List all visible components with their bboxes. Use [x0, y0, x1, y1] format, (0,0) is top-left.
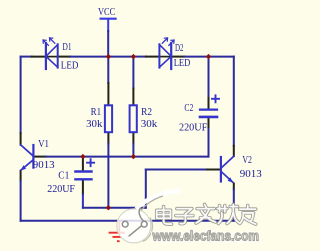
svg-text:D2: D2 — [175, 42, 184, 54]
svg-text:VCC: VCC — [98, 6, 115, 18]
svg-text:www.elecfans.com: www.elecfans.com — [152, 229, 259, 244]
svg-text:LED: LED — [61, 60, 79, 72]
svg-text:30k: 30k — [86, 118, 103, 130]
svg-text:C1: C1 — [58, 170, 69, 182]
svg-text:220UF: 220UF — [47, 183, 75, 195]
svg-text:V2: V2 — [242, 154, 252, 166]
svg-text:30k: 30k — [141, 118, 158, 130]
svg-text:220UF: 220UF — [179, 121, 207, 133]
svg-text:D1: D1 — [63, 41, 72, 53]
svg-text:9013: 9013 — [33, 159, 55, 171]
svg-text:C2: C2 — [184, 102, 193, 114]
svg-text:R1: R1 — [91, 106, 102, 118]
svg-text:9013: 9013 — [240, 168, 263, 180]
svg-text:R2: R2 — [141, 106, 152, 118]
svg-text:LED: LED — [174, 57, 191, 69]
svg-text:V1: V1 — [38, 138, 49, 150]
